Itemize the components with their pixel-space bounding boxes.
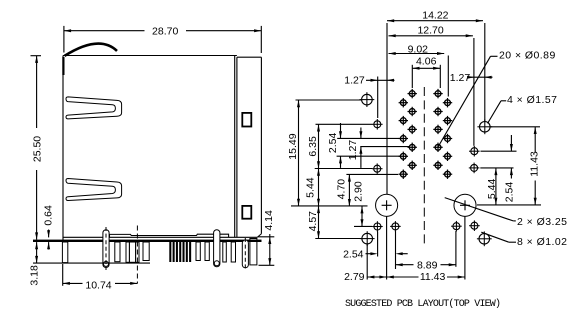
row ext line 1.57LT bbox=[296, 99, 362, 101]
svg-text:25.50: 25.50 bbox=[32, 136, 44, 162]
dimension 14.22 bbox=[386, 23, 388, 194]
row ext line L2 bbox=[315, 168, 373, 170]
svg-text:14.22: 14.22 bbox=[422, 9, 448, 21]
contact fork upper bbox=[66, 97, 122, 119]
svg-text:11.43: 11.43 bbox=[528, 151, 540, 177]
pad 1.57 right-bottom bbox=[479, 234, 490, 245]
dimension 1.27 right bbox=[471, 76, 493, 78]
pin P8 bbox=[223, 242, 227, 262]
row ext line L1 bbox=[316, 123, 373, 125]
svg-text:28.70: 28.70 bbox=[152, 25, 178, 37]
svg-text:2.90: 2.90 bbox=[353, 181, 365, 202]
pad 1.57 left-bottom bbox=[362, 233, 373, 244]
small latch window upper bbox=[242, 113, 251, 127]
svg-text:2.54: 2.54 bbox=[503, 182, 515, 203]
dimension 11.43 right bbox=[534, 127, 536, 153]
svg-text:20 × Ø0.89: 20 × Ø0.89 bbox=[499, 50, 556, 62]
base ledge line bbox=[110, 234, 229, 237]
svg-text:6.35: 6.35 bbox=[307, 136, 319, 157]
svg-text:4.06: 4.06 bbox=[416, 55, 437, 67]
svg-text:2 × Ø3.25: 2 × Ø3.25 bbox=[517, 216, 567, 228]
leader 8x1.02 bbox=[481, 232, 509, 242]
dimension 25.50 bbox=[31, 55, 42, 57]
svg-text:5.44: 5.44 bbox=[486, 179, 498, 200]
small latch window lower bbox=[242, 206, 251, 219]
dimension 2.54 bottom bbox=[377, 232, 379, 257]
dimension 28.70 bbox=[63, 26, 65, 53]
leader 2x3.25 bbox=[445, 198, 514, 221]
svg-text:1.27: 1.27 bbox=[347, 140, 359, 161]
pin P6 bbox=[205, 242, 209, 261]
svg-text:11.43: 11.43 bbox=[420, 271, 446, 283]
hole 3.25 right bbox=[454, 194, 476, 216]
pad 1.02 R3 bbox=[453, 223, 460, 230]
dimension 5.44 right bbox=[495, 168, 497, 205]
leader 20x0.89 bbox=[438, 56, 491, 147]
row ext line A4 bbox=[337, 155, 401, 157]
dimension 2.90 bbox=[361, 206, 363, 226]
pad 1.57 left-top bbox=[362, 94, 373, 105]
svg-text:2.54: 2.54 bbox=[343, 249, 364, 261]
dimension 2.54 left bbox=[340, 123, 342, 138]
pad 1.02 L3 bbox=[374, 223, 381, 230]
pin P9 bbox=[231, 242, 235, 262]
svg-text:1.27: 1.27 bbox=[344, 74, 365, 86]
shield seam double line bbox=[234, 56, 236, 238]
leader 4x1.57 bbox=[488, 101, 501, 124]
dimension 11.43 bottom bbox=[386, 217, 388, 280]
shield leg far-left bbox=[62, 242, 67, 263]
contact pin comb bbox=[169, 242, 171, 263]
rear post P10 (stadium) bbox=[242, 240, 248, 268]
svg-text:3.18: 3.18 bbox=[29, 265, 41, 286]
pad 1.02 R4 bbox=[471, 222, 478, 229]
pin row centerline (dashed) bbox=[136, 226, 138, 284]
dimension 15.49 bbox=[298, 100, 300, 206]
dimension 2.79 bbox=[366, 244, 368, 280]
svg-text:SUGGESTED PCB LAYOUT(TOP VIEW): SUGGESTED PCB LAYOUT(TOP VIEW) bbox=[345, 298, 500, 310]
dimension 8.89 bbox=[455, 231, 457, 267]
dimension 4.14 bbox=[258, 236, 274, 238]
pad 1.02 L4 bbox=[392, 223, 399, 230]
latch spring arc bbox=[65, 44, 118, 56]
dimension 3.18 bbox=[33, 262, 150, 264]
dimension 9.02 bbox=[447, 56, 449, 97]
contact fork lower bbox=[66, 179, 122, 201]
svg-text:2.54: 2.54 bbox=[327, 133, 339, 154]
dimension 6.35 bbox=[318, 124, 320, 168]
pin P4 bbox=[143, 242, 149, 261]
thick edge tick top-left bbox=[62, 57, 64, 75]
pad 1.57 right-top bbox=[480, 122, 491, 133]
pin P5 bbox=[196, 242, 200, 261]
mounting post P1 (stadium) bbox=[103, 230, 109, 268]
hole 3.25 left bbox=[376, 194, 398, 216]
shield bottom plate (0.64 thick) bbox=[33, 240, 262, 242]
svg-text:8 × Ø1.02: 8 × Ø1.02 bbox=[517, 236, 567, 248]
svg-text:8.89: 8.89 bbox=[417, 260, 438, 272]
svg-text:12.70: 12.70 bbox=[417, 25, 443, 37]
row ext line B4 bbox=[360, 146, 410, 148]
row ext line A5 bbox=[346, 173, 398, 175]
svg-text:4 × Ø1.57: 4 × Ø1.57 bbox=[507, 94, 557, 106]
svg-text:4.14: 4.14 bbox=[263, 210, 275, 231]
pad 1.02 R2 bbox=[471, 164, 478, 171]
svg-text:5.44: 5.44 bbox=[305, 177, 317, 198]
dimension 5.44 left bbox=[318, 169, 320, 206]
svg-text:15.49: 15.49 bbox=[287, 133, 299, 159]
svg-text:4.70: 4.70 bbox=[336, 179, 348, 200]
row ext line LB bbox=[315, 238, 361, 240]
svg-text:0.64: 0.64 bbox=[43, 205, 55, 226]
dimension 10.74 bbox=[62, 264, 64, 286]
row ext line L3 bbox=[354, 225, 372, 227]
dimension 4.06 bbox=[411, 65, 413, 88]
dimension 2.54 right bbox=[510, 135, 512, 151]
row ext line circle-row right bbox=[477, 204, 541, 206]
pin P3 wide tab bbox=[126, 242, 139, 262]
dimension 12.70 bbox=[473, 38, 475, 146]
row ext line circle-row left bbox=[291, 205, 368, 207]
row ext line A3 bbox=[337, 137, 401, 139]
svg-text:1.27: 1.27 bbox=[450, 72, 471, 84]
pad 1.02 L1 bbox=[374, 121, 381, 128]
row ext line RT bbox=[491, 126, 541, 128]
dimension 4.70 bbox=[348, 174, 350, 206]
dimension 4.57 bbox=[318, 206, 320, 239]
connector body outline (side view) bbox=[63, 55, 237, 57]
pad 1.02 R1 bbox=[471, 148, 478, 155]
PCB centerline (dashed) bbox=[423, 87, 425, 246]
row ext line R2 bbox=[480, 167, 513, 169]
dimension 1.27 left bbox=[377, 77, 379, 119]
svg-text:4.57: 4.57 bbox=[307, 211, 319, 232]
svg-text:2.79: 2.79 bbox=[344, 271, 365, 283]
row ext line R1 bbox=[481, 150, 517, 152]
mounting post P7 (stadium) bbox=[214, 230, 220, 267]
dimension 0.64 bbox=[48, 230, 50, 238]
20x signal pads 0.89 bbox=[400, 100, 406, 106]
dimension 1.27 mid bbox=[360, 128, 362, 139]
svg-text:10.74: 10.74 bbox=[85, 280, 111, 292]
svg-text:9.02: 9.02 bbox=[408, 44, 429, 56]
pin P11 bbox=[250, 239, 257, 265]
pin P2 bbox=[115, 242, 120, 262]
pad 1.02 L2 bbox=[374, 165, 381, 172]
